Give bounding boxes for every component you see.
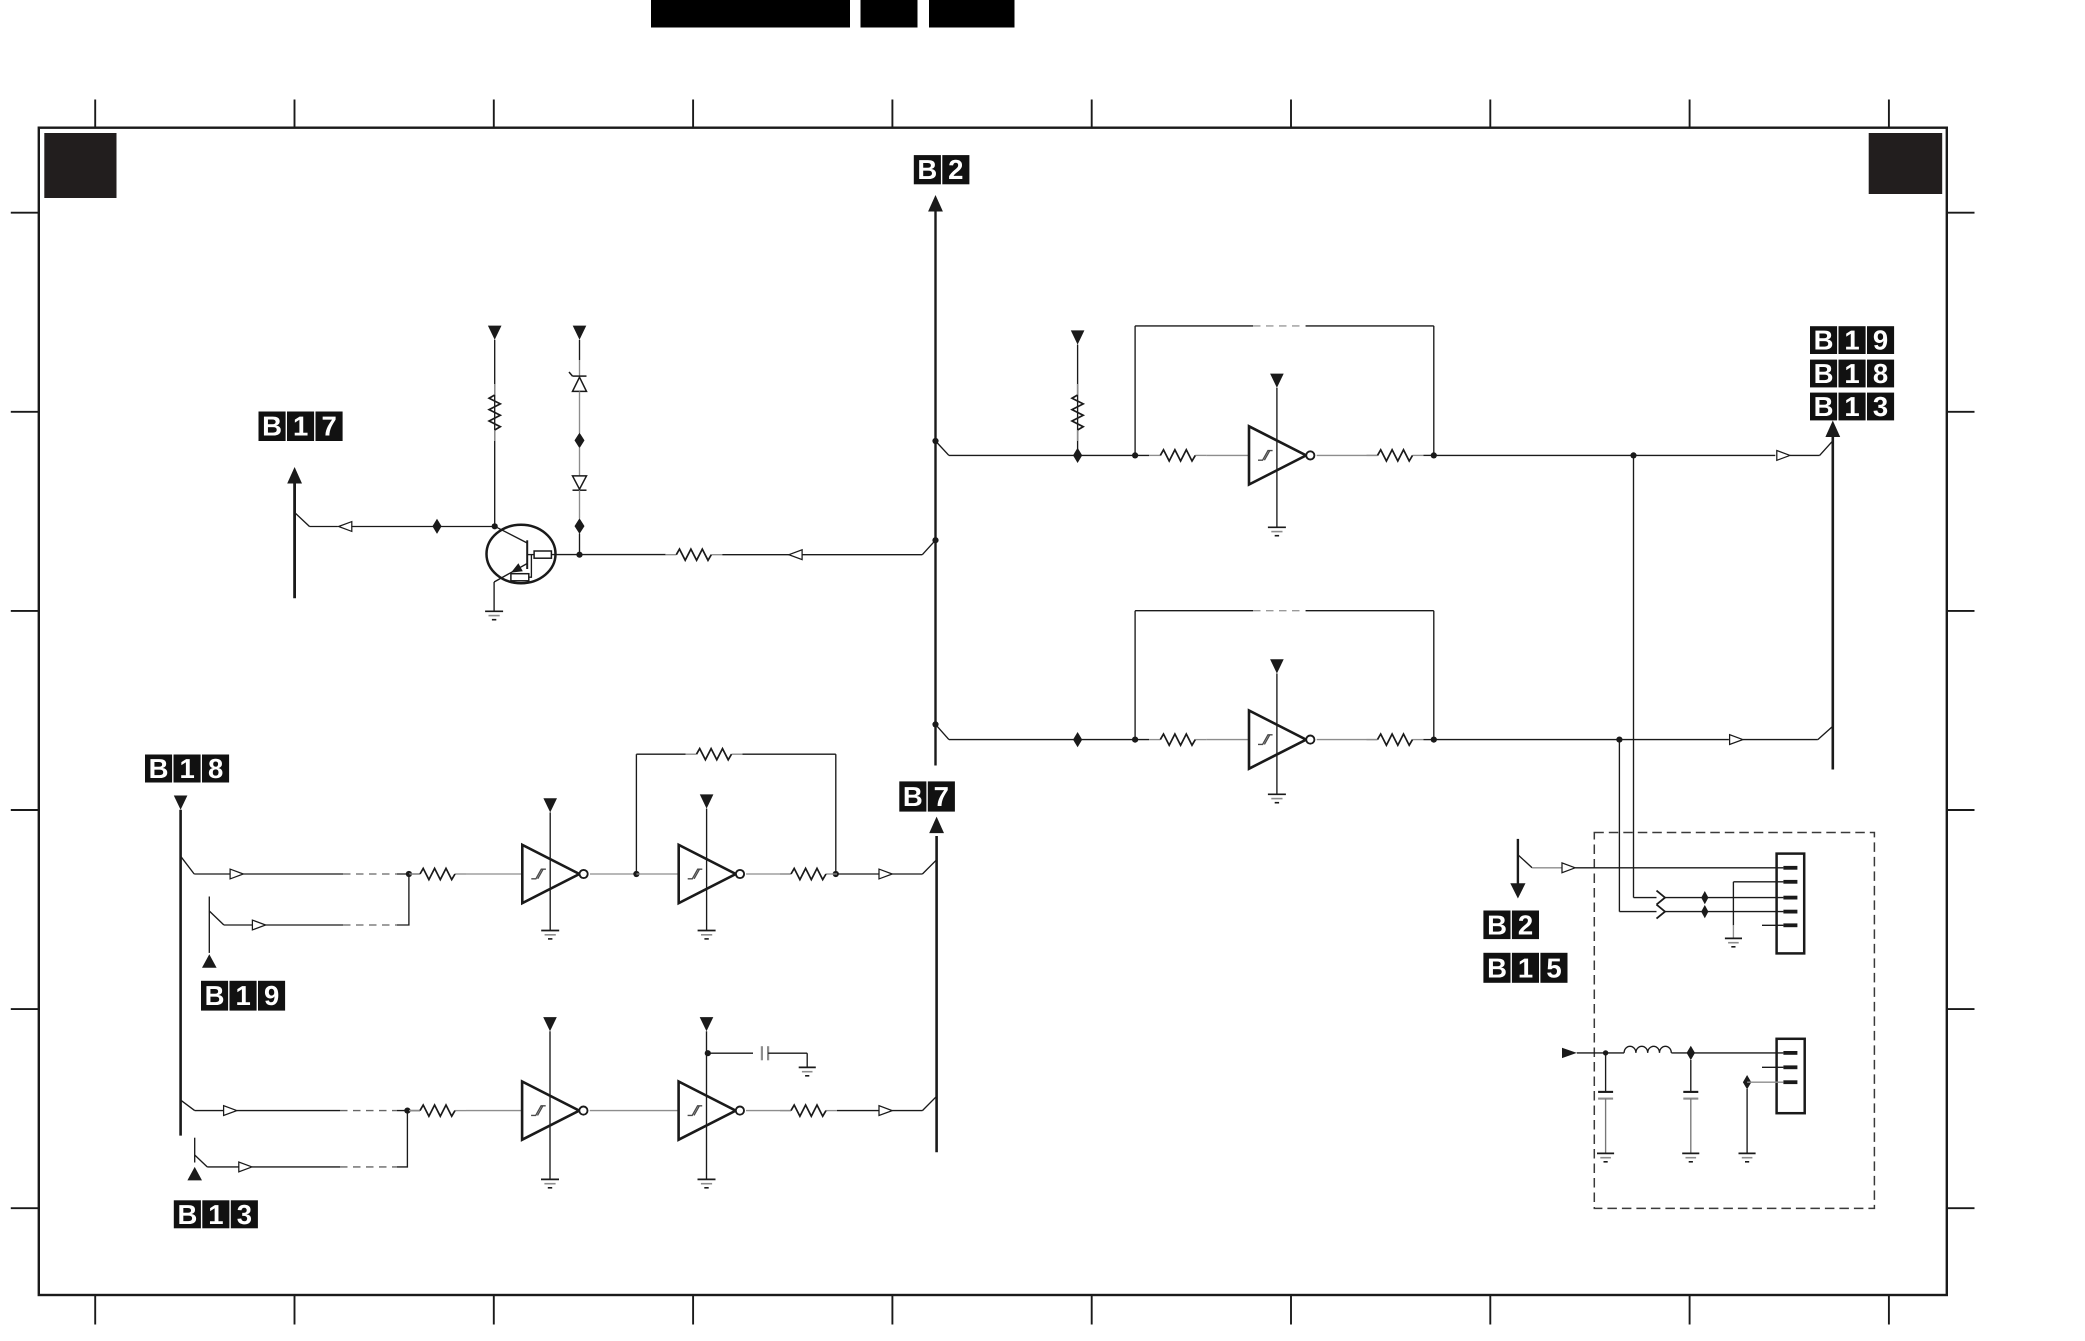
svg-text:B: B — [1487, 952, 1507, 983]
svg-text:9: 9 — [1873, 325, 1888, 356]
svg-text:3: 3 — [1873, 391, 1888, 422]
svg-text:1: 1 — [1844, 358, 1859, 389]
svg-text:1: 1 — [235, 980, 250, 1011]
svg-text:8: 8 — [1873, 358, 1888, 389]
svg-text:B: B — [262, 411, 282, 442]
svg-text:B: B — [205, 980, 225, 1011]
svg-text:1: 1 — [208, 1199, 223, 1230]
svg-text:7: 7 — [321, 411, 336, 442]
svg-text:9: 9 — [264, 980, 279, 1011]
svg-text:2: 2 — [1518, 909, 1533, 940]
svg-text:1: 1 — [1844, 325, 1859, 356]
svg-text:B: B — [177, 1199, 197, 1230]
svg-text:B: B — [1814, 325, 1834, 356]
svg-text:2: 2 — [948, 154, 963, 185]
svg-text:B: B — [1814, 391, 1834, 422]
svg-text:8: 8 — [208, 753, 223, 784]
svg-text:5: 5 — [1546, 952, 1561, 983]
svg-text:1: 1 — [179, 753, 194, 784]
svg-text:1: 1 — [293, 411, 308, 442]
svg-text:B: B — [917, 154, 937, 185]
svg-text:B: B — [149, 753, 169, 784]
svg-text:3: 3 — [237, 1199, 252, 1230]
svg-text:1: 1 — [1518, 952, 1533, 983]
svg-text:1: 1 — [1844, 391, 1859, 422]
svg-text:7: 7 — [934, 781, 949, 812]
svg-text:B: B — [1814, 358, 1834, 389]
svg-text:B: B — [903, 781, 923, 812]
svg-text:B: B — [1487, 909, 1507, 940]
